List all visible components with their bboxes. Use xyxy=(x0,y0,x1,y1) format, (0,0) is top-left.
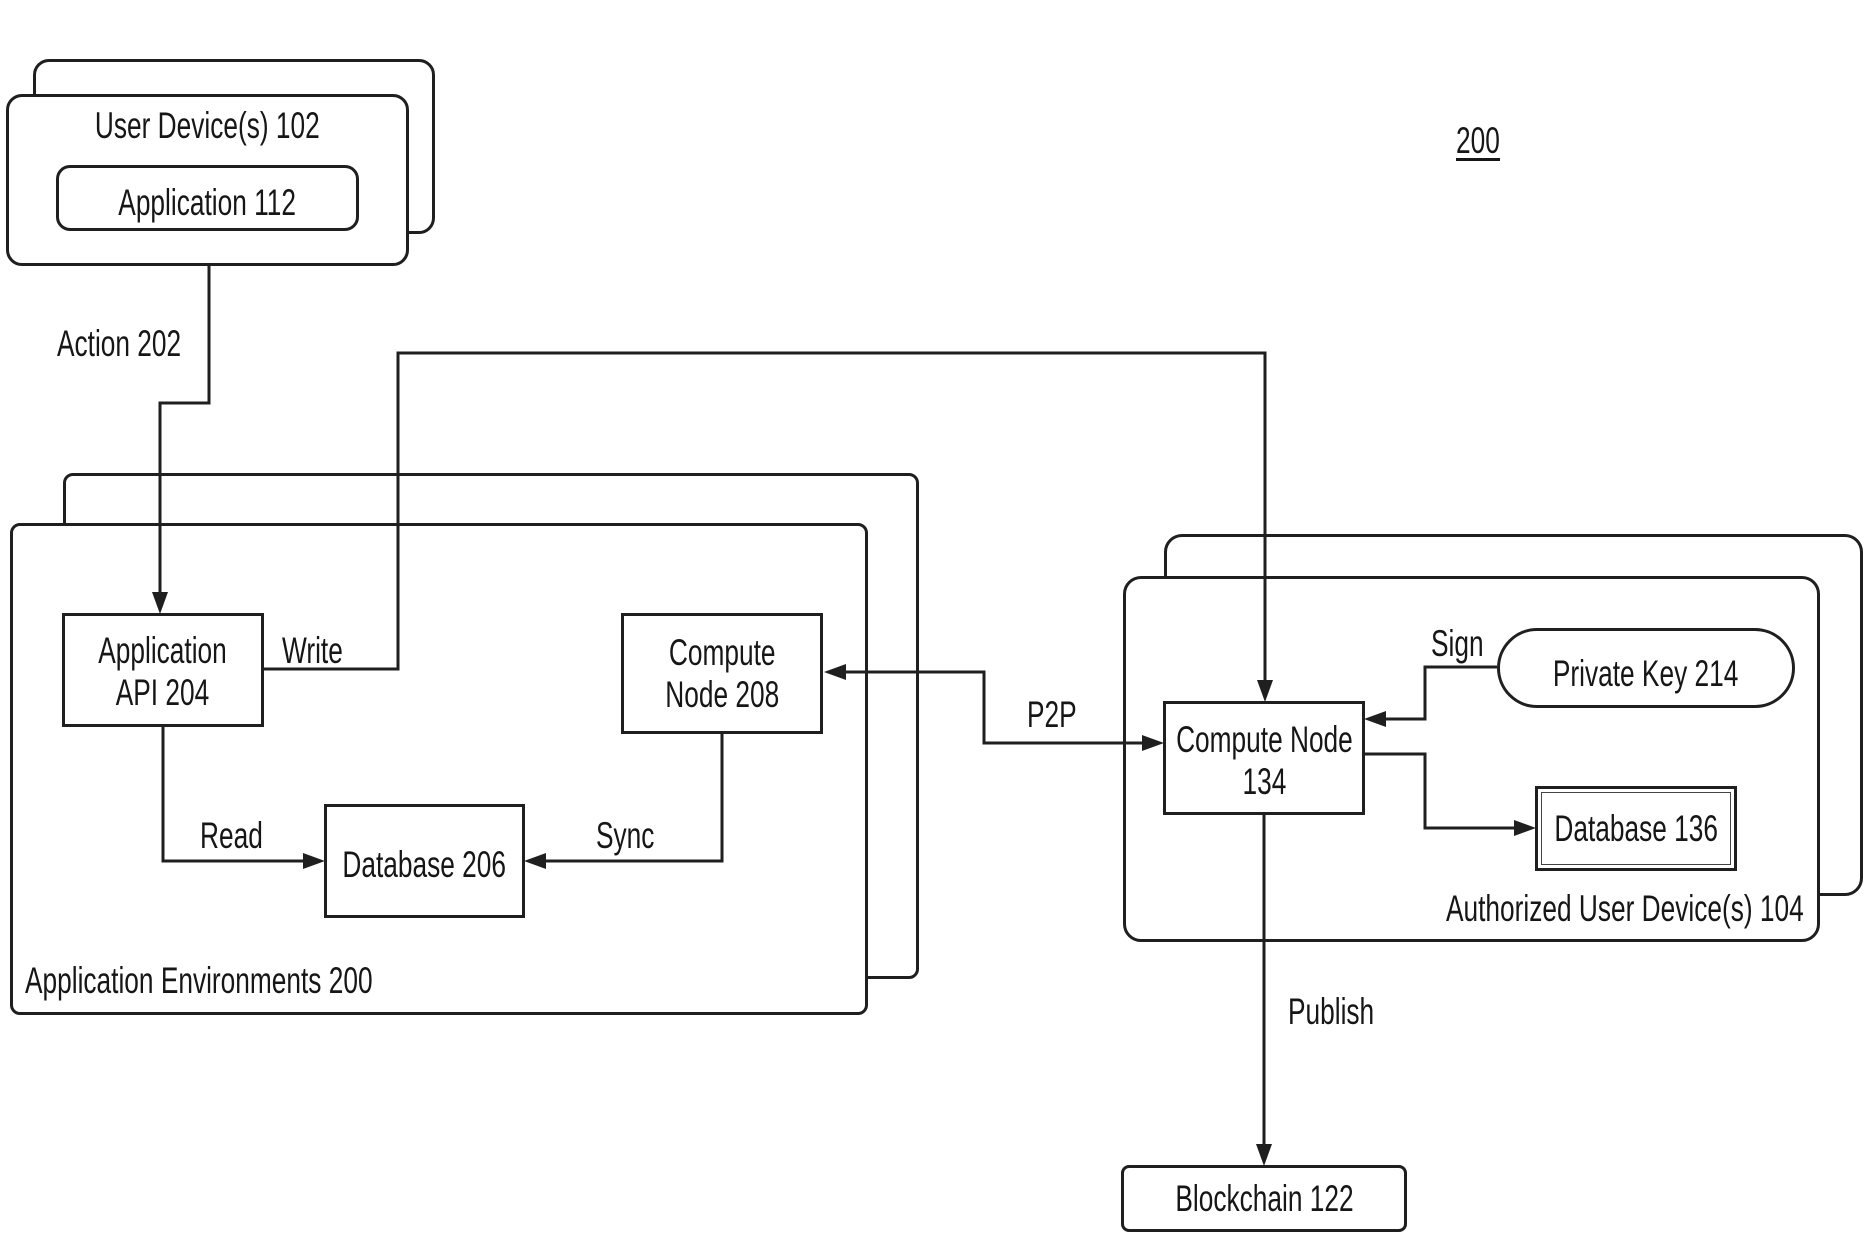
wire p2p between compute node 208 and compute node 134 xyxy=(845,672,1144,743)
label Database 206 xyxy=(324,804,525,918)
label Private Key 214 xyxy=(1497,628,1795,708)
arrowhead p2p into compute node 208 xyxy=(824,664,846,680)
arrowhead write into compute node 134 xyxy=(1257,680,1273,702)
label 200 underlined xyxy=(1456,124,1500,161)
arrowhead sign into compute node 134 xyxy=(1364,711,1386,727)
arrowhead action 202 xyxy=(152,592,168,614)
label Action 202 xyxy=(57,325,181,362)
label Sign xyxy=(1431,625,1484,662)
label Application API 204 xyxy=(62,613,264,727)
user device front box 102 xyxy=(6,94,409,266)
label Write xyxy=(282,632,343,669)
arrowhead p2p into compute node 134 xyxy=(1142,735,1164,751)
wire read from api 204 to database 206 xyxy=(163,727,305,861)
wire action 202 from user device to application api 204 xyxy=(160,266,209,594)
compute node 208 box xyxy=(621,613,823,734)
application api 204 box xyxy=(62,613,264,727)
label Read xyxy=(200,817,263,854)
label Sync xyxy=(596,817,654,854)
wire sign from private key 214 to compute node 134 xyxy=(1384,667,1497,719)
label Publish xyxy=(1288,993,1374,1030)
label User Device(s) 102 xyxy=(6,106,409,146)
compute node 134 box xyxy=(1163,701,1365,815)
label Compute Node 134 xyxy=(1163,701,1365,815)
label Application Environments 200 xyxy=(25,962,373,999)
authorized user device front box 104 xyxy=(1123,576,1820,942)
database 136 box xyxy=(1535,786,1737,871)
label Blockchain 122 xyxy=(1121,1165,1407,1232)
blockchain 122 box xyxy=(1121,1165,1407,1232)
arrowhead into database 136 xyxy=(1514,820,1536,836)
arrowhead publish into blockchain 122 xyxy=(1256,1144,1272,1166)
database 206 box xyxy=(324,804,525,918)
user device back box xyxy=(33,59,435,234)
application environments back box xyxy=(63,473,919,979)
authorized user device back box xyxy=(1164,534,1863,896)
wire sync from compute node 208 to database 206 xyxy=(544,734,722,861)
arrowhead sync into database 206 xyxy=(524,853,546,869)
label Compute Node 208 xyxy=(621,613,823,734)
label Application 112 xyxy=(56,165,359,231)
wire compute node 134 to database 136 xyxy=(1365,754,1516,828)
wire write from api 204 up over to compute node 134 xyxy=(264,353,1265,682)
wire publish from compute node 134 to blockchain 122 xyxy=(1263,815,1266,1146)
label Database 136 xyxy=(1535,786,1737,871)
application environments front box 200 xyxy=(10,523,868,1015)
private key 214 pill xyxy=(1497,628,1795,708)
label P2P xyxy=(1027,696,1077,733)
application 112 box xyxy=(56,165,359,231)
arrowhead read into database 206 xyxy=(303,853,325,869)
label Authorized User Device(s) 104 xyxy=(1446,890,1804,927)
